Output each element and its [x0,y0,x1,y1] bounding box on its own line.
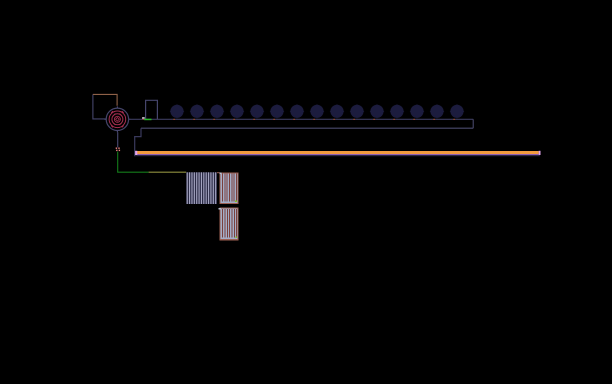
bearing tick T5 [253,119,255,120]
bearing tick T6 [273,119,275,120]
bearing tick T11 [373,119,375,120]
roller R4 [230,104,244,118]
coil block red upper E2 [220,173,238,204]
sensor S1 tap (white) [142,117,145,119]
blower B1 fan [105,106,131,132]
hearth top line [129,118,474,120]
roller R7 [290,104,304,118]
indicator segment (green) [144,119,151,121]
bearing tick T3 [213,119,215,120]
roller R1 [170,104,184,118]
coil block red lower E3 [218,208,238,240]
heater plate H1 right cap (lavender) [539,151,541,155]
hearth step outline [135,128,141,156]
hearth bottom line [141,127,473,129]
roller R12 [390,104,404,118]
wire (slate, from blower B1) [117,132,119,147]
junction node J1 (pink dots) [116,148,120,152]
roller R2 [190,104,204,118]
roller R9 [330,104,344,118]
roller R10 [350,104,364,118]
roller R3 [210,104,224,118]
sensor S1 [146,100,158,119]
sensor S1 dot (red) [143,119,144,120]
bearing tick T14 [433,119,435,120]
bearing tick T2 [193,119,195,120]
roller R13 [410,104,424,118]
bearing tick T1 [173,119,175,120]
bearing tick T4 [233,119,235,120]
hearth right edge [472,119,474,128]
bearing tick T7 [293,119,295,120]
bearing tick T10 [353,119,355,120]
heater plate H1 left cap (lavender) [135,151,137,155]
bearing tick T12 [393,119,395,120]
roller R15 [450,104,464,118]
wire (green, vertical drop) [117,152,119,173]
roller R5 [250,104,264,118]
roller R11 [370,104,384,118]
blower B1 housing [93,94,117,119]
under-plate line [135,155,540,157]
roller R8 [310,104,324,118]
heater plate H1 underline (purple) [137,154,539,155]
bearing tick T8 [313,119,315,120]
heater plate H1 (orange) [137,151,539,154]
bearing tick T9 [333,119,335,120]
coil block blue (meander element E1) [186,172,217,204]
wire (green, horizontal run) [117,171,148,173]
roller R14 [430,104,444,118]
link E1-E2 (red) [217,172,220,173]
wire (olive, to coil E1) [149,171,187,173]
roller R6 [270,104,284,118]
bearing tick T15 [453,119,455,120]
bearing tick T13 [413,119,415,120]
